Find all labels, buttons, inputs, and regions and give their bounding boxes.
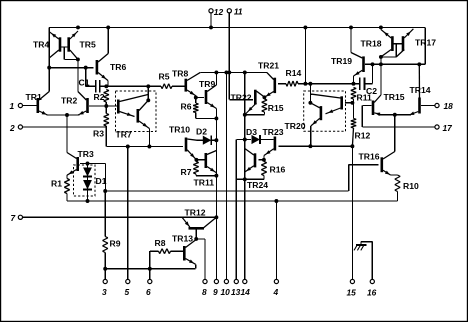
node R6 to emitter line — [214, 116, 218, 120]
node pin10 bias junction — [224, 70, 228, 74]
wire TR4/TR5 base tie — [60, 46, 69, 48]
svg-text:R2: R2 — [94, 92, 105, 102]
svg-text:TR17: TR17 — [415, 38, 436, 48]
node TR10 emitter — [194, 158, 198, 162]
wire left vertical TR4/TR1 collectors — [48, 27, 50, 91]
pin 6 — [148, 279, 152, 283]
svg-text:TR6: TR6 — [110, 62, 126, 72]
node TR6 collector rail junction — [106, 25, 110, 29]
transistor TR1 — [36, 98, 39, 113]
svg-text:TR21: TR21 — [258, 61, 279, 71]
node TR14 collector tie — [417, 62, 421, 66]
resistor R12 — [354, 118, 357, 121]
wire pin11 to bias line — [228, 13, 230, 73]
pin 5 — [126, 279, 130, 283]
wire TR3 base line — [80, 163, 105, 165]
resistor R1 — [67, 179, 70, 180]
transistor TR5 — [67, 37, 70, 51]
svg-text:2: 2 — [9, 123, 15, 133]
svg-text:4: 4 — [273, 287, 279, 297]
node TR9 collector bias junction — [214, 70, 218, 74]
wire TR19 base line — [365, 63, 425, 65]
svg-text:R10: R10 — [403, 181, 419, 191]
resistor R16 — [264, 162, 267, 163]
svg-text:R14: R14 — [286, 68, 302, 78]
wire pin 4 drop — [275, 201, 277, 279]
wire TR24 base — [259, 159, 264, 161]
pin 1 — [18, 103, 22, 107]
wire tail down to TR3 — [66, 115, 68, 153]
svg-text:TR3: TR3 — [78, 149, 94, 159]
wire mid rail to TR16 base — [105, 190, 349, 192]
dashed box TR20 — [304, 91, 346, 131]
transistor TR7b — [137, 109, 140, 123]
wire TR8 emitter to R6 — [195, 96, 197, 103]
svg-text:5: 5 — [125, 287, 130, 297]
capacitor C1 — [95, 80, 97, 92]
wire TR13 emitter down — [195, 264, 197, 268]
svg-text:TR7: TR7 — [116, 130, 132, 140]
wire D3 left elbow — [235, 140, 237, 280]
node pin 4 tie — [274, 199, 278, 203]
node TR12 base / TR13 collector / pin 8 — [194, 237, 198, 241]
node C2 tie — [371, 62, 375, 66]
transistor TR19 — [362, 56, 365, 72]
svg-text:1: 1 — [10, 101, 15, 111]
node R12 bottom tie — [350, 144, 354, 148]
node TR22 emitter — [243, 113, 247, 117]
node D3 anode — [243, 138, 247, 142]
node rail-pin12 — [209, 25, 213, 29]
svg-text:R3: R3 — [93, 129, 104, 139]
svg-text:R11: R11 — [357, 93, 373, 103]
svg-text:7: 7 — [11, 213, 16, 223]
svg-text:C1: C1 — [79, 78, 90, 88]
svg-text:TR12: TR12 — [185, 208, 206, 218]
wire R9 top — [104, 191, 106, 237]
wire TR11 base — [196, 159, 204, 161]
node TR20 emitter tie — [308, 144, 312, 148]
wire pin2 to R3 node — [23, 126, 107, 128]
resistor R14 — [278, 83, 286, 85]
svg-text:R7: R7 — [181, 167, 192, 177]
wire TR9 collector to bias line — [215, 72, 217, 85]
pin 14 — [243, 279, 247, 283]
wire TR6 emitter down — [107, 81, 109, 87]
transistor TR10 — [185, 138, 188, 152]
node main line left — [104, 84, 108, 88]
pin 12 — [209, 9, 213, 13]
node TR24 emitter — [243, 177, 247, 181]
transistor TR23 — [274, 137, 277, 151]
svg-text:R1: R1 — [51, 179, 62, 189]
transistor TR20b — [320, 106, 323, 120]
svg-text:R15: R15 — [268, 103, 284, 113]
node pin7 line end — [214, 215, 218, 219]
svg-text:D3: D3 — [246, 127, 257, 137]
svg-text:TR22: TR22 — [231, 93, 252, 103]
wire R14 node to rail — [304, 27, 306, 83]
transistor TR16 — [380, 157, 383, 172]
wire TR3 emitter to R1 — [66, 175, 68, 178]
pin 17 — [435, 125, 439, 129]
wire TR22 base — [228, 72, 230, 99]
node TR24 base — [262, 158, 266, 162]
transistor TR14 — [418, 98, 421, 114]
resistor R6 — [196, 102, 199, 105]
node pair collector — [379, 55, 383, 59]
svg-text:R6: R6 — [181, 102, 192, 112]
svg-text:3: 3 — [102, 287, 107, 297]
svg-text:D1: D1 — [96, 176, 107, 186]
pin 13 — [234, 279, 238, 283]
wire output emitter link — [379, 114, 412, 116]
node R9 bottom — [103, 267, 107, 271]
node TR11 emitter — [214, 174, 218, 178]
resistor R11 — [354, 87, 357, 90]
wire R5 to TR8 base — [172, 85, 185, 87]
node C1 tap — [84, 66, 88, 70]
wire R1 bottom — [66, 194, 68, 202]
svg-text:11: 11 — [234, 7, 243, 17]
svg-text:TR9: TR9 — [199, 79, 215, 89]
wire TR2 base to feedback node — [89, 105, 117, 107]
wire R12 bottom — [352, 128, 353, 146]
svg-text:17: 17 — [443, 123, 453, 133]
svg-text:R12: R12 — [355, 131, 371, 141]
wire TR14 base to pin 18 — [421, 105, 435, 107]
node R14 right — [303, 82, 307, 86]
pin 4 — [274, 279, 278, 283]
wire pin 10 vertical — [225, 72, 227, 279]
wire TR15 collector riser — [380, 64, 382, 95]
svg-text:TR15: TR15 — [384, 92, 405, 102]
svg-text:15: 15 — [347, 288, 357, 298]
node C2 left — [352, 82, 356, 86]
pin 9 — [214, 279, 218, 283]
pin 3 — [103, 279, 107, 283]
transistor TR20a — [340, 96, 343, 109]
wire TR7 emitter down — [148, 129, 150, 147]
node TR19 collector rail junction — [349, 25, 353, 29]
wire TR15 base elbow — [362, 105, 371, 107]
svg-text:TR16: TR16 — [359, 152, 380, 162]
node mid rail left — [103, 189, 107, 193]
resistor R7 — [196, 162, 199, 163]
diode D3 — [252, 135, 260, 144]
svg-text:6: 6 — [146, 287, 151, 297]
resistor R9 — [105, 237, 108, 238]
svg-text:TR20: TR20 — [285, 121, 306, 131]
node TR21 emitter — [262, 95, 266, 99]
diode D2 — [203, 136, 212, 145]
transistor TR7a — [117, 100, 120, 114]
dashed box TR7 — [116, 91, 157, 132]
svg-text:TR24: TR24 — [247, 180, 268, 190]
wire R2-R3 link — [105, 102, 107, 114]
transistor TR2 — [86, 98, 89, 113]
wire R9 bottom to pin 3 — [104, 253, 106, 280]
node TR20 base tap — [350, 101, 354, 105]
svg-text:8: 8 — [202, 287, 207, 297]
pin 11 — [227, 9, 231, 13]
transistor TR13 — [183, 246, 186, 261]
transistor TR4 — [59, 37, 62, 51]
wire bias line — [200, 71, 266, 73]
node tail — [65, 113, 69, 117]
wire R11-R12 link — [353, 99, 355, 119]
wire TR17/TR18 base tie — [392, 43, 403, 45]
transistor TR15 — [372, 101, 375, 116]
node TR5 emitter rail junction — [76, 25, 80, 29]
resistor R8 — [150, 250, 159, 252]
wire main line to R5 — [106, 85, 161, 87]
svg-text:16: 16 — [367, 288, 377, 298]
wire TR6 base line — [49, 67, 93, 69]
transistor TR17 — [402, 36, 405, 51]
wire pin 5 drop — [127, 147, 129, 280]
svg-text:D2: D2 — [196, 127, 207, 137]
svg-text:12: 12 — [214, 7, 224, 17]
wire TR6 collector to rail — [107, 27, 109, 53]
wire TR23 emitter down — [263, 156, 265, 160]
svg-text:R16: R16 — [270, 165, 286, 175]
node output — [393, 113, 397, 117]
resistor R2 — [106, 90, 109, 91]
svg-text:18: 18 — [444, 101, 454, 111]
transistor TR11 — [205, 153, 208, 168]
svg-text:9: 9 — [213, 287, 218, 297]
svg-text:13: 13 — [231, 287, 241, 297]
svg-text:R8: R8 — [155, 238, 166, 248]
wire C1 left drop — [85, 68, 87, 87]
resistor R15 — [264, 99, 267, 100]
resistor R10 — [398, 175, 401, 176]
wire R6 bottom — [195, 113, 197, 119]
svg-text:TR5: TR5 — [80, 40, 96, 50]
wire TR19 collector to rail — [350, 27, 352, 52]
svg-text:TR11: TR11 — [194, 178, 215, 188]
wire TR20 collectors vertical — [309, 84, 311, 103]
node TR20b collector — [308, 101, 312, 105]
diode D1a — [87, 164, 89, 168]
node pin11 bias junction — [227, 70, 231, 74]
wire pin1 to TR1 base — [23, 105, 37, 107]
node pin 6 tie — [148, 267, 152, 271]
node TR7 emitter tap — [147, 145, 151, 149]
transistor TR22 — [254, 90, 257, 105]
pin 15 — [350, 279, 354, 283]
svg-text:R5: R5 — [159, 72, 170, 82]
transistor TR8 — [185, 79, 188, 92]
svg-text:14: 14 — [241, 287, 251, 297]
dashed box D1 — [74, 165, 96, 196]
wire collector link down — [380, 57, 382, 64]
pin 10 — [224, 279, 228, 283]
wire bias to C2 line — [305, 83, 360, 85]
wire pin 15 drop — [351, 146, 353, 279]
transistor TR21 — [273, 78, 276, 93]
pin 8 — [203, 279, 207, 283]
svg-text:TR19: TR19 — [331, 56, 352, 66]
node D2 cathode — [214, 138, 218, 142]
node D1 top tap — [86, 162, 90, 166]
wire right corner to rail — [424, 27, 426, 64]
node TR7b collector — [146, 98, 150, 102]
pin 18 — [435, 103, 439, 107]
wire TR7 collectors vertical — [147, 86, 149, 100]
wire top supply rail — [49, 26, 425, 28]
wire output down to TR16 — [394, 115, 396, 152]
svg-text:TR2: TR2 — [61, 96, 77, 106]
wire to pin 8 — [196, 238, 205, 240]
wire TR23 base line — [279, 145, 353, 147]
transistor TR6 — [96, 60, 99, 75]
resistor R3 — [106, 114, 109, 115]
wire TR9 emitter chain down to pin 9 — [215, 109, 217, 280]
transistor TR9 — [205, 90, 208, 104]
svg-text:TR10: TR10 — [169, 125, 190, 135]
transistor TR24 — [254, 153, 257, 167]
svg-text:TR8: TR8 — [172, 69, 188, 79]
node D1 bottom tie — [86, 199, 90, 203]
transistor TR18 — [391, 36, 394, 51]
node R14 branch rail junction — [303, 25, 307, 29]
transistor TR3 — [76, 157, 79, 171]
node D3 branch bias junction — [243, 70, 247, 74]
svg-text:TR14: TR14 — [410, 85, 431, 95]
wire TR9 base — [196, 97, 204, 99]
svg-text:TR1: TR1 — [26, 92, 42, 102]
pin 16 — [370, 279, 374, 283]
capacitor C2 — [359, 78, 361, 90]
node TR2 base — [104, 104, 108, 108]
resistor R5 — [161, 86, 162, 89]
svg-text:TR18: TR18 — [361, 39, 382, 49]
wire pair collector link — [381, 56, 396, 58]
wire R8 left drop — [149, 251, 151, 269]
wire TR19 emitter down — [353, 76, 355, 84]
wire TR5 to TR2 collector — [77, 59, 79, 91]
wire TR10 base line — [106, 146, 183, 148]
svg-text:TR4: TR4 — [33, 40, 49, 50]
wire TR16 emitter to R10 — [391, 174, 398, 176]
wire D3 branch vertical — [244, 72, 246, 279]
svg-text:TR23: TR23 — [263, 127, 284, 137]
wire pin 16 to ground — [371, 242, 373, 280]
svg-text:TR13: TR13 — [172, 234, 193, 244]
wire pin 17 line — [362, 126, 435, 128]
diode D1b — [87, 177, 89, 181]
wire TR20 emitter down — [310, 126, 312, 146]
wire R16 bottom — [263, 176, 265, 180]
node TR9 base — [194, 96, 198, 100]
node TR4 collector / TR6 base line — [47, 66, 51, 70]
wire lower rail — [67, 200, 398, 202]
node TR18 emitter rail junction — [379, 25, 383, 29]
pin 7 — [18, 215, 22, 219]
ground — [356, 244, 367, 246]
wire R3 to lower node — [105, 126, 107, 147]
svg-text:R9: R9 — [110, 239, 121, 249]
node TR20 collector tie — [308, 82, 312, 86]
wire R15 bottom — [263, 112, 265, 115]
transistor TR12 — [189, 227, 205, 230]
node pin5 tap — [126, 145, 130, 149]
svg-text:10: 10 — [221, 287, 231, 297]
wire C2 right up — [372, 64, 374, 83]
wire pin 6 drop — [149, 269, 151, 280]
node TR18 collector tie — [379, 62, 383, 66]
wire pin 7 line — [23, 216, 217, 218]
wire R7 bottom — [195, 174, 197, 176]
wire TR1/TR2 emitter tail — [47, 114, 80, 116]
node TR5 collector — [76, 57, 80, 61]
wire TR20 base stub — [345, 102, 352, 104]
node TR7 collector tie — [146, 84, 150, 88]
pin 2 — [18, 125, 22, 129]
